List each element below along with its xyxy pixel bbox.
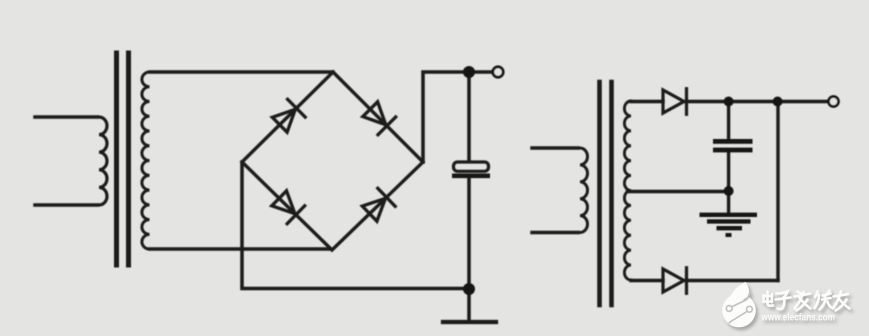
transformer T2 primary bottom lead — [532, 231, 578, 234]
junction dot D5 cathode / C2 — [724, 97, 734, 107]
wire D5 cathode to output terminal — [687, 100, 828, 103]
transformer T1 secondary winding — [142, 72, 150, 249]
transformer T2 secondary winding — [624, 101, 631, 280]
capacitor C1 top lead — [467, 72, 471, 161]
watermark text 电子发烧友 — [764, 291, 850, 311]
wire bridge + corner to output rail — [423, 72, 491, 162]
transformer T1 primary top lead — [35, 115, 97, 119]
transformer T1 primary winding — [99, 117, 107, 205]
ground bar left circuit — [443, 320, 496, 324]
capacitor C1 bottom lead — [467, 178, 471, 289]
wire bridge - corner down and to bottom rail — [242, 162, 469, 289]
ground lead left circuit — [467, 289, 471, 320]
capacitor C2 top lead — [727, 102, 730, 140]
wire D6 cathode to riser — [687, 279, 779, 282]
junction dot bottom rail — [463, 283, 475, 295]
junction dot center tap / C2 / ground — [724, 186, 734, 196]
capacitor C1 negative plate — [452, 174, 490, 179]
ground lead right circuit — [727, 191, 730, 213]
terminal output right circuit — [829, 97, 839, 107]
diode D4 bottom-right of bridge — [362, 188, 395, 221]
transformer T1 primary bottom lead — [35, 203, 97, 207]
wire secondary bottom to diode D6 — [631, 279, 663, 282]
diode D1 top-left of bridge — [272, 99, 305, 132]
wire secondary top to diode D5 — [631, 100, 663, 103]
wire secondary bottom to bridge AC bottom — [150, 247, 330, 251]
earth ground symbol right circuit — [700, 215, 758, 235]
transformer T2 primary winding — [580, 148, 588, 232]
capacitor C2 plates — [713, 139, 753, 152]
wire center tap — [628, 190, 729, 193]
diode D2 top-right of bridge — [363, 102, 396, 135]
diode D6 — [663, 268, 687, 294]
wire right riser to output rail — [776, 102, 779, 281]
transformer T2 primary top lead — [532, 146, 578, 149]
bridge rectifier diamond wires — [242, 72, 423, 250]
transformer T2 core — [600, 82, 612, 305]
svg-text:www.elecfans.com: www.elecfans.com — [761, 312, 835, 323]
junction dot output + rail — [463, 66, 475, 78]
wire secondary top to bridge AC top — [150, 70, 333, 74]
capacitor C1 positive plate — [454, 162, 489, 171]
transformer T1 core — [117, 53, 129, 265]
capacitor C2 bottom lead — [727, 152, 730, 191]
junction dot output rail / riser — [773, 97, 783, 107]
watermark elecfans logo — [722, 282, 849, 327]
terminal + output left circuit — [493, 67, 503, 77]
diode D3 bottom-left of bridge — [272, 191, 305, 224]
diode D5 — [663, 89, 687, 115]
